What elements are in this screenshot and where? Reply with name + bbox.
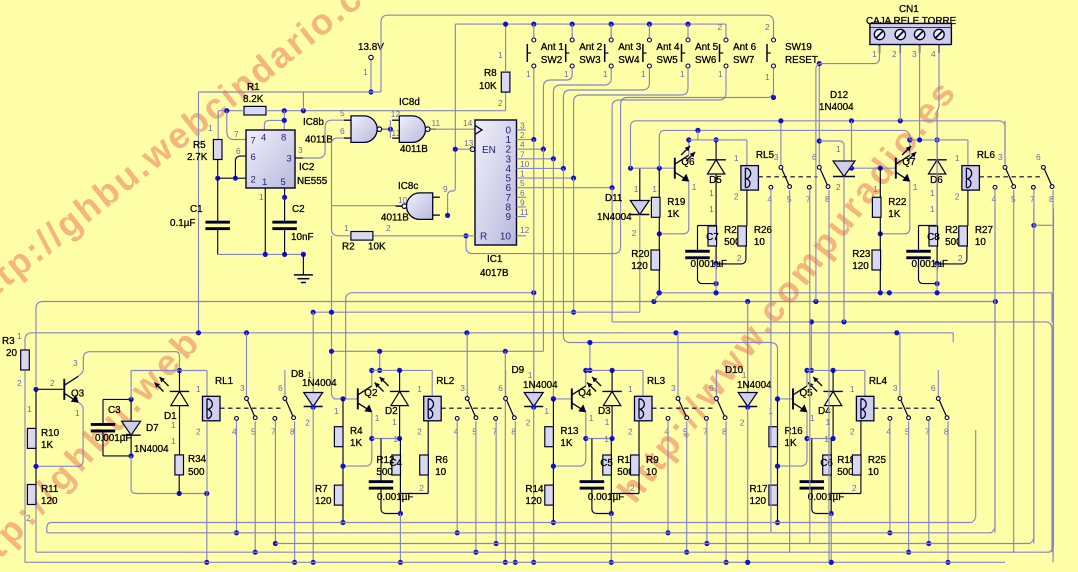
LED D2	[375, 370, 410, 441]
svg-text:8: 8	[281, 133, 286, 144]
svg-text:R10: R10	[41, 428, 60, 439]
svg-text:1: 1	[393, 434, 398, 444]
svg-text:Ant 5: Ant 5	[695, 42, 719, 53]
LED D3	[587, 370, 622, 441]
wire 555 pin1	[264, 188, 266, 254]
svg-text:Ant 4: Ant 4	[656, 42, 680, 53]
wire Q6 emitter	[657, 181, 697, 236]
wire col SW3 to rail S	[542, 149, 544, 351]
svg-text:R6: R6	[435, 455, 448, 466]
svg-text:4: 4	[931, 49, 936, 59]
wire Q6 collector	[686, 137, 691, 155]
wire RL5 contacts down	[771, 189, 829, 562]
nand-gate IC8d	[392, 97, 436, 155]
diode D9	[512, 365, 559, 565]
svg-text:D12: D12	[830, 90, 848, 101]
svg-text:2: 2	[737, 253, 742, 263]
svg-text:3: 3	[298, 145, 303, 155]
wire base Q5	[775, 396, 793, 401]
LED D1	[155, 371, 190, 455]
svg-text:1K: 1K	[41, 440, 53, 451]
svg-text:C6: C6	[820, 458, 833, 469]
svg-text:1: 1	[873, 184, 878, 194]
svg-text:4011B: 4011B	[400, 144, 428, 155]
svg-text:R: R	[480, 232, 487, 243]
svg-text:RL6: RL6	[977, 150, 996, 161]
wire rail Q	[17, 330, 953, 350]
svg-text:R27: R27	[975, 225, 993, 236]
svg-text:Ant 3: Ant 3	[618, 42, 642, 53]
svg-text:1: 1	[955, 153, 960, 163]
svg-text:2: 2	[892, 49, 897, 59]
svg-text:2: 2	[850, 427, 855, 437]
svg-text:4: 4	[992, 194, 997, 204]
transistor Q5	[793, 386, 813, 413]
svg-text:20: 20	[6, 348, 17, 359]
watermark right	[609, 71, 965, 510]
wire R2 left	[332, 206, 351, 399]
resistor R6	[420, 421, 449, 494]
wire IC8c inputs	[443, 184, 450, 218]
wire Q2 collector	[369, 368, 374, 386]
resistor R7	[315, 484, 346, 525]
svg-text:2: 2	[630, 483, 635, 493]
capacitor C2	[272, 188, 313, 254]
svg-text:4011B: 4011B	[305, 135, 333, 146]
wire R11 down	[35, 505, 37, 553]
svg-text:2: 2	[26, 513, 31, 523]
wire IC8c out to IC8b pin6	[332, 138, 409, 206]
svg-text:SW5: SW5	[656, 55, 678, 66]
svg-text:500: 500	[188, 467, 205, 478]
svg-text:10nF: 10nF	[291, 232, 314, 243]
svg-text:Ant 1: Ant 1	[541, 42, 565, 53]
svg-text:10K: 10K	[368, 242, 386, 253]
svg-text:R26: R26	[754, 225, 773, 236]
svg-text:R2: R2	[342, 242, 355, 253]
svg-text:1: 1	[718, 69, 723, 79]
wire Q3 collector	[73, 352, 182, 377]
wire IC8c in to busB	[448, 24, 456, 197]
wire CN1 pin3	[917, 46, 922, 143]
svg-text:7: 7	[251, 136, 256, 147]
svg-text:4: 4	[454, 427, 459, 437]
svg-text:6: 6	[251, 152, 256, 163]
svg-text:R1: R1	[247, 82, 260, 93]
wire rail S	[329, 349, 544, 565]
wire R1 left	[218, 108, 246, 139]
svg-text:1: 1	[520, 169, 525, 179]
svg-text:RL1: RL1	[215, 376, 234, 387]
nand-gate IC8b	[303, 116, 388, 146]
svg-text:10: 10	[500, 232, 512, 243]
svg-text:2: 2	[17, 378, 22, 388]
diode D10	[725, 302, 772, 565]
svg-text:1: 1	[604, 434, 609, 444]
svg-text:0.1µF: 0.1µF	[170, 218, 195, 229]
svg-text:1: 1	[810, 413, 815, 423]
connector CN1	[866, 4, 957, 59]
switch SW7 (Ant 6)	[718, 22, 757, 68]
svg-text:R11: R11	[41, 484, 59, 495]
svg-text:10: 10	[868, 467, 879, 478]
svg-text:1: 1	[526, 69, 531, 79]
wire rail M RL5	[689, 140, 747, 166]
svg-text:Q3: Q3	[71, 389, 85, 400]
svg-text:1: 1	[498, 50, 503, 60]
svg-text:R4: R4	[350, 426, 363, 437]
svg-text:R3: R3	[2, 336, 15, 347]
svg-text:4: 4	[520, 140, 525, 150]
wire C3 D7 top	[103, 371, 207, 403]
svg-text:1: 1	[171, 436, 176, 446]
resistor R19	[651, 168, 686, 250]
wire Q7 base drop	[851, 121, 853, 168]
wire 555 pins 4 8	[264, 111, 287, 130]
svg-text:D11: D11	[605, 193, 623, 204]
svg-text:2: 2	[718, 22, 723, 32]
svg-text:1N4004: 1N4004	[523, 380, 558, 391]
svg-text:6: 6	[236, 146, 241, 156]
svg-text:2: 2	[50, 378, 55, 388]
svg-text:RL3: RL3	[647, 376, 666, 387]
transistor Q3	[50, 376, 85, 403]
svg-text:IC2: IC2	[299, 162, 314, 173]
svg-text:1N4004: 1N4004	[302, 378, 337, 389]
svg-text:2: 2	[196, 427, 201, 437]
svg-text:1N4004: 1N4004	[737, 380, 772, 391]
svg-text:1: 1	[417, 384, 422, 394]
svg-text:2: 2	[251, 175, 256, 186]
svg-text:6: 6	[520, 188, 525, 198]
svg-text:7: 7	[234, 129, 239, 139]
relay RL5	[734, 150, 775, 202]
svg-text:1: 1	[392, 417, 397, 427]
svg-text:C2: C2	[292, 204, 305, 215]
svg-text:1: 1	[544, 406, 549, 416]
transistor Q2	[358, 386, 378, 413]
svg-text:10: 10	[435, 467, 446, 478]
svg-text:1K: 1K	[560, 438, 572, 449]
svg-text:RL5: RL5	[756, 150, 775, 161]
svg-text:1: 1	[17, 331, 22, 341]
svg-text:1: 1	[913, 182, 918, 192]
wire R8 bottom	[505, 92, 507, 111]
svg-text:0.001µF: 0.001µF	[691, 259, 727, 270]
svg-text:3: 3	[774, 152, 779, 162]
capacitor C4	[369, 439, 414, 514]
relay RL4 contacts	[874, 333, 949, 437]
svg-text:2.7K: 2.7K	[187, 152, 208, 163]
svg-text:4: 4	[886, 427, 891, 437]
wire block top RL3	[586, 368, 643, 397]
relay RL6 contacts	[979, 121, 1054, 204]
svg-text:Q2: Q2	[364, 388, 377, 399]
svg-text:C7: C7	[706, 232, 719, 243]
capacitor C3	[91, 399, 132, 456]
wire IC8d out to IC1	[431, 118, 476, 129]
svg-text:120: 120	[315, 496, 332, 507]
svg-text:1: 1	[363, 67, 368, 77]
svg-text:10: 10	[646, 467, 657, 478]
svg-text:1: 1	[344, 223, 349, 233]
wire Vcc rail	[199, 15, 774, 92]
relay RL2	[417, 376, 454, 437]
svg-text:4: 4	[261, 133, 266, 144]
wire col SW7 to rail T	[612, 188, 1052, 553]
svg-text:9: 9	[505, 212, 511, 223]
wire riser b3	[587, 340, 592, 373]
svg-text:10: 10	[975, 237, 986, 248]
svg-text:6: 6	[709, 383, 714, 393]
svg-text:0.001µF: 0.001µF	[912, 259, 948, 270]
svg-text:2: 2	[520, 130, 525, 140]
capacitor C5	[580, 439, 625, 514]
watermark left lower	[0, 319, 210, 572]
svg-text:C1: C1	[190, 204, 203, 215]
resistor R34	[175, 454, 207, 494]
svg-text:3: 3	[893, 383, 898, 393]
LED D6	[902, 137, 947, 220]
svg-text:D7: D7	[146, 423, 159, 434]
wire EN	[453, 147, 473, 152]
switch SW4 (Ant 3)	[605, 22, 642, 69]
svg-text:8.2K: 8.2K	[243, 94, 264, 105]
wire R17 junction	[775, 447, 780, 485]
diode D12	[819, 90, 855, 322]
svg-text:D10: D10	[725, 365, 744, 376]
wire CN1 pin2	[899, 46, 901, 121]
wire RL4 contacts down	[887, 420, 950, 565]
svg-text:11: 11	[432, 118, 441, 128]
resistor R14	[525, 484, 556, 525]
wire SW7 column	[612, 68, 726, 187]
wire busB	[455, 22, 726, 73]
svg-text:2: 2	[305, 418, 310, 428]
resistor R4	[334, 399, 363, 449]
wire col SW5 to base4	[563, 168, 780, 401]
svg-text:Q4: Q4	[578, 388, 592, 399]
svg-text:2: 2	[498, 98, 503, 108]
wire RL1 pin2	[204, 421, 209, 565]
svg-text:6: 6	[278, 383, 283, 393]
wire gnd rail	[218, 252, 306, 257]
wire base Q7	[849, 166, 896, 171]
IC IC1 4017B	[464, 120, 615, 245]
svg-text:2: 2	[740, 418, 745, 428]
wire Q4 emitter	[553, 412, 611, 466]
svg-text:SW2: SW2	[541, 55, 562, 66]
svg-text:11: 11	[520, 207, 529, 217]
svg-text:D3: D3	[598, 406, 611, 417]
svg-text:R7: R7	[315, 484, 328, 495]
wire rail y552	[36, 209, 1054, 553]
svg-text:2: 2	[734, 192, 739, 202]
wire block top RL2	[372, 368, 432, 397]
svg-text:RL4: RL4	[869, 376, 888, 387]
svg-text:1: 1	[709, 204, 714, 214]
svg-text:1K: 1K	[888, 209, 900, 220]
wire RL5 pin2	[746, 190, 748, 226]
wire C3 D7 bottom	[103, 453, 209, 496]
relay RL1	[196, 376, 234, 437]
svg-text:1: 1	[765, 72, 770, 82]
wire rail A	[346, 290, 537, 399]
svg-text:2: 2	[958, 253, 963, 263]
svg-text:13: 13	[464, 138, 474, 148]
svg-text:1: 1	[692, 182, 697, 192]
svg-text:D9: D9	[512, 365, 525, 376]
diode D11	[597, 168, 649, 312]
wire R7 junction	[340, 447, 345, 485]
wire RL6 pin2	[967, 190, 969, 226]
svg-text:1: 1	[930, 204, 935, 214]
wire Q7 emitter	[878, 181, 918, 236]
wire R3 bottom	[24, 371, 26, 562]
svg-text:1N4004: 1N4004	[819, 102, 854, 113]
resistor R5	[187, 123, 222, 163]
svg-text:1N4004: 1N4004	[134, 444, 169, 455]
svg-text:3: 3	[671, 383, 676, 393]
svg-text:120: 120	[41, 496, 58, 507]
wire RL1 contacts down	[234, 420, 297, 565]
svg-text:14: 14	[463, 118, 473, 128]
svg-text:1: 1	[208, 123, 213, 133]
switch SW3 (Ant 2)	[566, 22, 603, 69]
svg-text:SW6: SW6	[695, 55, 717, 66]
resistor R22	[872, 168, 906, 250]
svg-text:1: 1	[196, 384, 201, 394]
relay RL6	[955, 150, 996, 202]
svg-text:1: 1	[836, 144, 841, 154]
resistor R21	[708, 225, 743, 266]
wire rail P	[36, 293, 998, 386]
svg-text:5: 5	[340, 108, 345, 118]
svg-text:1: 1	[75, 408, 80, 418]
wire R18 bottom	[829, 475, 861, 565]
svg-text:2: 2	[628, 427, 633, 437]
svg-text:R17: R17	[750, 484, 768, 495]
svg-text:2: 2	[765, 22, 770, 32]
svg-text:2: 2	[632, 228, 637, 238]
svg-text:R34: R34	[188, 454, 207, 465]
relay RL1 contacts	[220, 333, 296, 437]
svg-text:1: 1	[375, 413, 380, 423]
wire rail G	[656, 290, 1052, 322]
wire IC8b out	[382, 109, 401, 138]
wire SW4 column	[553, 68, 611, 158]
capacitor C1	[170, 178, 230, 254]
capacitor C7	[685, 232, 727, 286]
svg-text:3: 3	[240, 383, 245, 393]
resistor R1	[243, 82, 266, 115]
svg-text:R25: R25	[868, 455, 887, 466]
wire Q5 emitter	[778, 412, 832, 466]
wire CN1 pin1	[816, 46, 880, 302]
svg-text:D2: D2	[385, 406, 398, 417]
svg-text:C5: C5	[600, 458, 613, 469]
LED D5	[681, 137, 726, 220]
wire riser b4	[809, 319, 814, 373]
resistor R25	[852, 421, 886, 494]
transistor Q6	[675, 155, 695, 182]
svg-text:RL2: RL2	[436, 376, 454, 387]
wire col SW6 to rail R	[571, 178, 576, 315]
resistor R13	[544, 399, 579, 449]
resistor R9	[631, 421, 660, 494]
svg-text:R13: R13	[560, 426, 579, 437]
svg-text:SW19: SW19	[785, 42, 812, 53]
resistor R12	[376, 434, 400, 478]
svg-text:120: 120	[852, 261, 869, 272]
svg-text:10K: 10K	[479, 81, 497, 92]
wire SW19 jog	[773, 97, 775, 99]
svg-text:1: 1	[605, 417, 610, 427]
svg-text:1: 1	[872, 49, 877, 59]
wire col SW2 to D9	[533, 140, 535, 394]
svg-text:1: 1	[171, 420, 176, 430]
wire rail y532	[47, 209, 995, 533]
svg-text:5: 5	[281, 177, 286, 188]
svg-text:1: 1	[589, 413, 594, 423]
wire R12 bottom	[398, 475, 428, 565]
LED D4	[808, 370, 843, 441]
wire Q3 emitter	[36, 402, 83, 466]
svg-text:IC8d: IC8d	[399, 97, 420, 108]
wire rail y562	[25, 560, 1005, 565]
wire SW6 column	[574, 68, 688, 178]
svg-text:2: 2	[526, 418, 531, 428]
svg-text:R16: R16	[785, 426, 804, 437]
switch SW19 (RESET)	[765, 22, 818, 82]
switch SW5 (Ant 4)	[643, 22, 680, 69]
diode D7	[122, 399, 169, 456]
svg-text:6: 6	[1036, 152, 1041, 162]
svg-text:C4: C4	[389, 458, 402, 469]
capacitor C8	[906, 232, 948, 286]
svg-text:RESET: RESET	[785, 55, 818, 66]
svg-text:7: 7	[520, 149, 525, 159]
resistor R2	[342, 223, 391, 253]
svg-text:1: 1	[27, 404, 32, 414]
resistor R10	[27, 389, 60, 451]
wire Q2 emitter	[343, 412, 400, 466]
resistor R24	[929, 225, 964, 266]
svg-text:3: 3	[460, 383, 465, 393]
svg-text:3: 3	[998, 152, 1003, 162]
svg-text:Ant 2: Ant 2	[579, 42, 602, 53]
svg-text:CN1: CN1	[899, 4, 919, 15]
svg-text:6: 6	[340, 126, 345, 136]
svg-text:4: 4	[665, 427, 670, 437]
switch SW6 (Ant 5)	[682, 22, 719, 69]
svg-text:1: 1	[259, 192, 264, 202]
wire R24 col	[919, 220, 940, 295]
svg-text:1N4004: 1N4004	[597, 212, 632, 223]
svg-text:1: 1	[634, 184, 639, 194]
svg-text:3: 3	[287, 154, 292, 165]
svg-text:NE555: NE555	[297, 176, 328, 187]
wire Q5 collector	[804, 368, 809, 386]
svg-text:4017B: 4017B	[480, 268, 509, 279]
svg-text:R22: R22	[888, 197, 906, 208]
resistor R3	[2, 336, 29, 388]
ground	[294, 254, 313, 282]
IC IC2 NE555 body	[234, 129, 328, 202]
wire Q4 collector	[583, 368, 588, 386]
transistor Q7	[896, 155, 916, 182]
svg-text:2: 2	[836, 182, 841, 192]
